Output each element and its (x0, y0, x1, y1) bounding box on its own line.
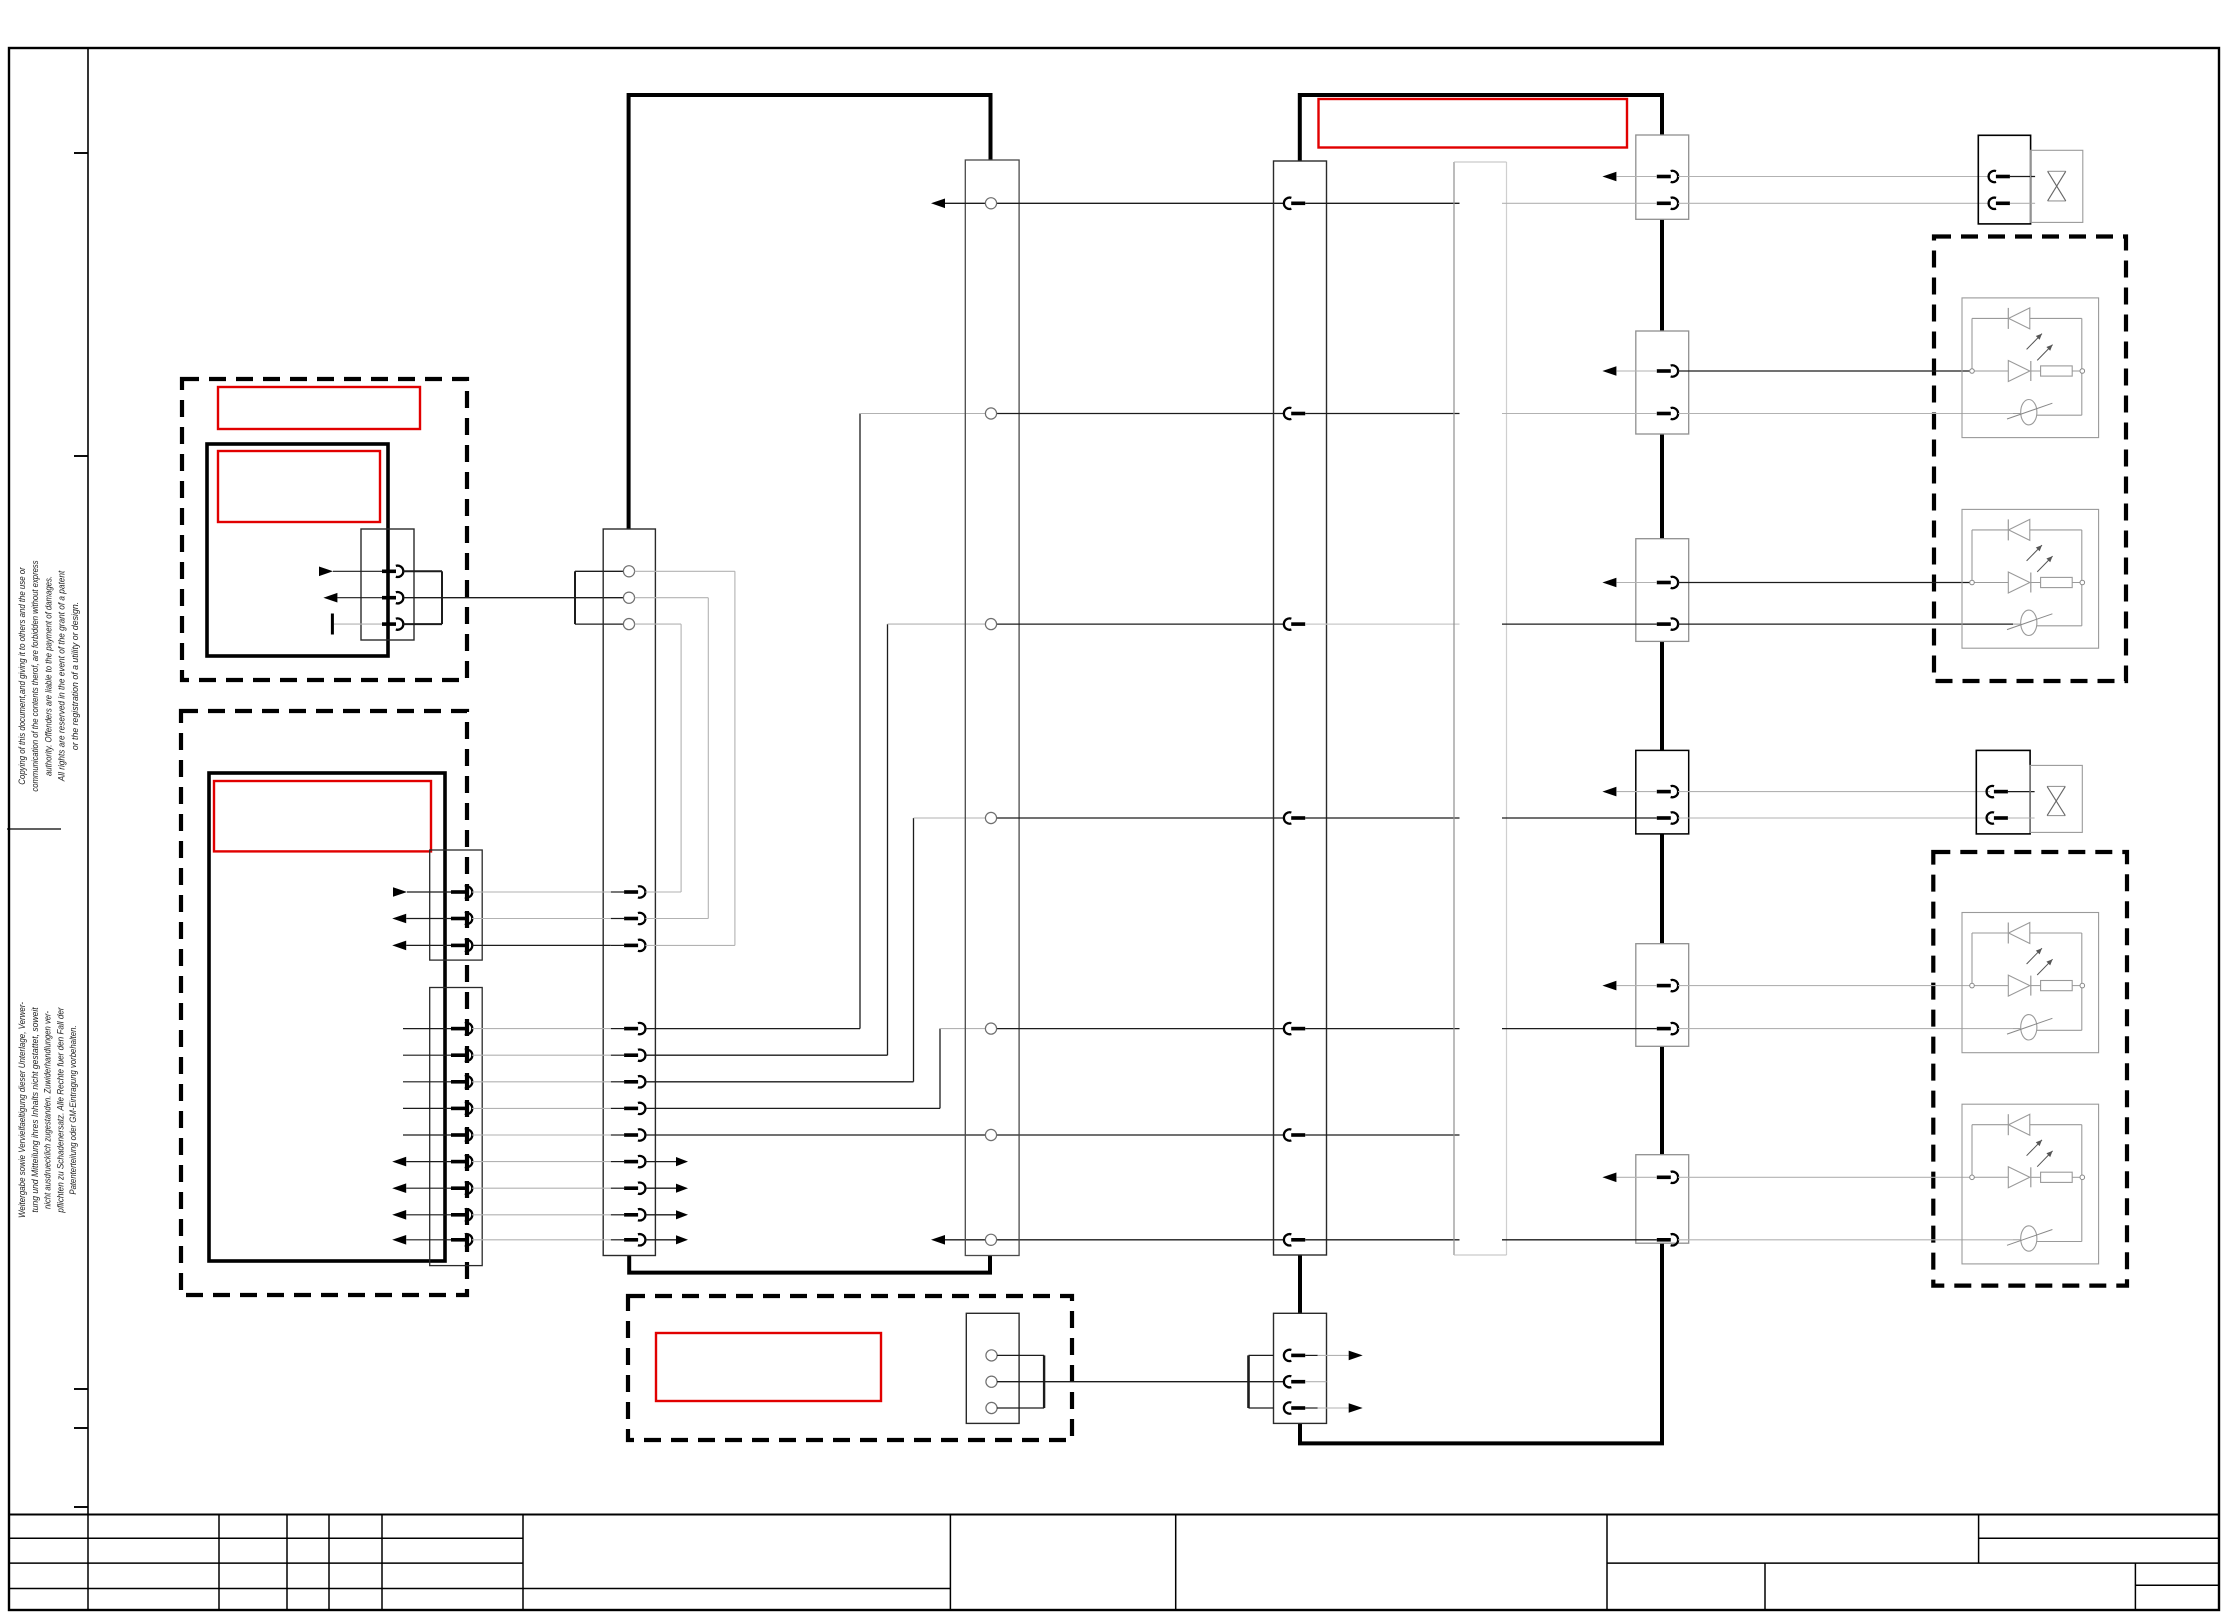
svg-text:communication of the contents: communication of the contents therof, ar… (30, 560, 40, 792)
svg-text:nicht ausdruecklich zugestande: nicht ausdruecklich zugestanden. Zuwider… (43, 1011, 53, 1209)
svg-text:Patenterteilung oder GM-Eintra: Patenterteilung oder GM-Eintragung vorbe… (68, 1025, 78, 1194)
svg-text:All rights are reserved in the: All rights are reserved in the event of … (57, 570, 67, 782)
svg-text:Copying of this document,and g: Copying of this document,and giving it t… (17, 566, 27, 784)
svg-text:Weitergabe sowie Vervielfaelti: Weitergabe sowie Vervielfaeltigung diese… (17, 1002, 27, 1218)
svg-text:or the registration of a utili: or the registration of a utility or desi… (70, 602, 80, 750)
svg-text:pflichten zu Schadenersatz. Al: pflichten zu Schadenersatz. Alle Rechte … (55, 1006, 65, 1213)
svg-text:tung und Mitteilung ihres Inha: tung und Mitteilung ihres Inhalts nicht … (30, 1007, 40, 1213)
svg-text:authority. Offenders are liabl: authority. Offenders are liable to the p… (43, 576, 53, 776)
